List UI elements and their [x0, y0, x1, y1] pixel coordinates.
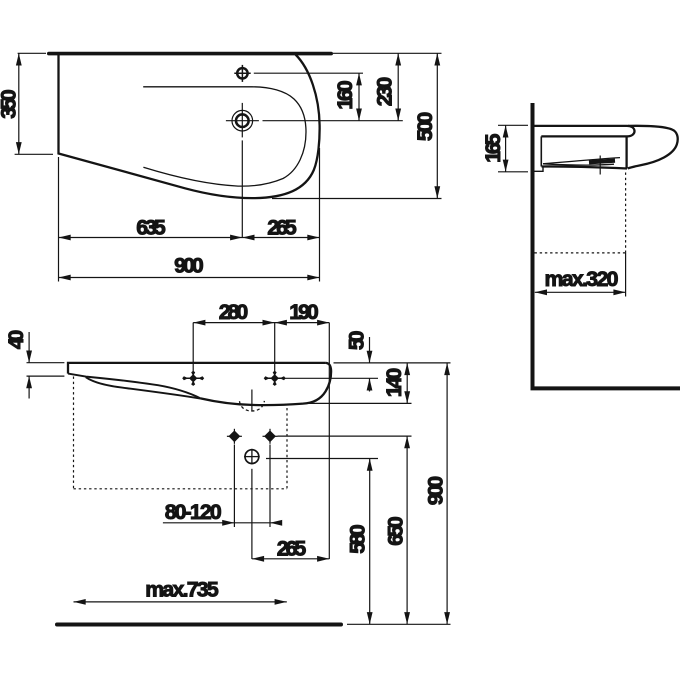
wall line (thick bar, plan view): [49, 52, 331, 56]
svg-text:900: 900: [174, 254, 204, 278]
dimension 230: [397, 53, 399, 120]
basin inner bowl outline (plan): [143, 87, 306, 186]
extension line slab top right: [334, 362, 451, 364]
svg-text:265: 265: [267, 216, 297, 240]
extension verticals from 280/190 dim: [192, 323, 194, 386]
dimension 40 (arrows outside): [28, 332, 30, 363]
svg-text:80-120: 80-120: [165, 500, 222, 524]
slab top edge: [68, 363, 326, 374]
dimension 650: [406, 436, 408, 624]
wall line (vertical thick): [531, 103, 535, 388]
extension line faucet level right: [284, 377, 379, 379]
bottom extension line: [347, 623, 451, 625]
extension line bottom of plan (500 dim): [272, 198, 442, 200]
basin back vertical at wall: [540, 136, 542, 166]
rim bar top (side view): [533, 126, 635, 136]
faucet hole symbol (plan): [237, 68, 247, 78]
drain extension line down (to 635/265 dim): [241, 140, 243, 237]
drain centerline (side view): [599, 156, 601, 175]
svg-text:230: 230: [373, 77, 397, 106]
svg-text:265: 265: [277, 536, 307, 560]
dimension 580: [369, 459, 371, 625]
inner bowl lens (side view): [543, 158, 620, 164]
svg-text:580: 580: [346, 524, 370, 553]
faucet position cross 1: [184, 377, 203, 379]
svg-text:165: 165: [481, 133, 505, 163]
extension line bottom of 350: [15, 153, 53, 155]
dimension 50 (arrows outside): [369, 337, 371, 363]
faucet position cross 2: [265, 377, 284, 379]
svg-text:350: 350: [0, 89, 21, 118]
svg-text:500: 500: [413, 112, 437, 141]
drain dashed cup (front view): [240, 401, 265, 411]
dimension 350: [18, 53, 20, 154]
dimension max.320: [535, 291, 626, 293]
drain symbol (plan): two circles + centerlines: [232, 110, 253, 131]
slab bottom-left + crescent rim edge: [68, 374, 201, 399]
dashed depth lines (side view): [625, 173, 627, 253]
drain centerline (front view): [251, 390, 253, 412]
fixing hole diamond 2: [264, 430, 276, 442]
basin bottom (side view): [542, 166, 628, 168]
dimension 900 (front): [446, 363, 448, 624]
extension line for max.320: [625, 253, 627, 297]
extension vertical from trap drain: [251, 469, 253, 559]
svg-text:140: 140: [382, 368, 406, 397]
svg-text:635: 635: [136, 216, 166, 240]
dimension 265 (front): [252, 558, 329, 560]
faucet extension line to 160 dim: [254, 72, 363, 74]
dimension 165: [505, 125, 507, 172]
drain extension line right (to 230/160 dims): [263, 120, 403, 122]
svg-text:190: 190: [289, 300, 318, 324]
dimension 635 / 265 line: [59, 237, 320, 239]
svg-text:40: 40: [4, 330, 28, 350]
basin front vertical (side view): [625, 136, 627, 168]
svg-text:max.320: max.320: [545, 267, 619, 291]
outer shell (side view): [628, 126, 678, 169]
dimension 160: [358, 73, 360, 121]
svg-text:50: 50: [345, 330, 369, 350]
dimension 500: [436, 53, 438, 198]
svg-text:160: 160: [333, 80, 357, 109]
dimension 900 (plan): [59, 277, 320, 279]
wall floor line (horizontal thick): [531, 386, 680, 390]
extension lines for 165: [498, 124, 528, 126]
extension line right edge down: [319, 148, 321, 282]
extension lines 40 dim: [27, 362, 65, 364]
dimension 80-120 (arrows outside): [163, 522, 282, 524]
extension line left edge down: [58, 157, 60, 282]
dotted trap area rectangle: [73, 377, 75, 489]
bottom step at wall: [533, 167, 543, 172]
svg-text:650: 650: [383, 516, 407, 545]
extension line top-left (350 dim): [18, 52, 46, 54]
dimension 280 / 190: [193, 322, 329, 324]
extension verticals from fixing holes: [233, 445, 235, 528]
extension line 650 level: [278, 435, 412, 437]
right end curl: [303, 363, 331, 404]
basin bottom curve: [201, 398, 304, 405]
svg-text:280: 280: [219, 300, 248, 324]
fixing hole diamond 1: [229, 430, 241, 442]
drain blob (side view): [589, 161, 615, 163]
extension line 580 level: [266, 458, 378, 460]
extension line top right (to 230/500): [333, 52, 442, 54]
svg-text:max.735: max.735: [145, 578, 219, 602]
dimension max.735: [74, 601, 287, 603]
basin outer outline (plan): [59, 55, 320, 199]
extension line basin bottom right: [304, 402, 412, 404]
trap drain symbol (front view): [245, 450, 259, 464]
floor line (thick bar): [57, 623, 341, 627]
svg-text:900: 900: [424, 476, 448, 505]
dimension 140: [406, 363, 408, 404]
